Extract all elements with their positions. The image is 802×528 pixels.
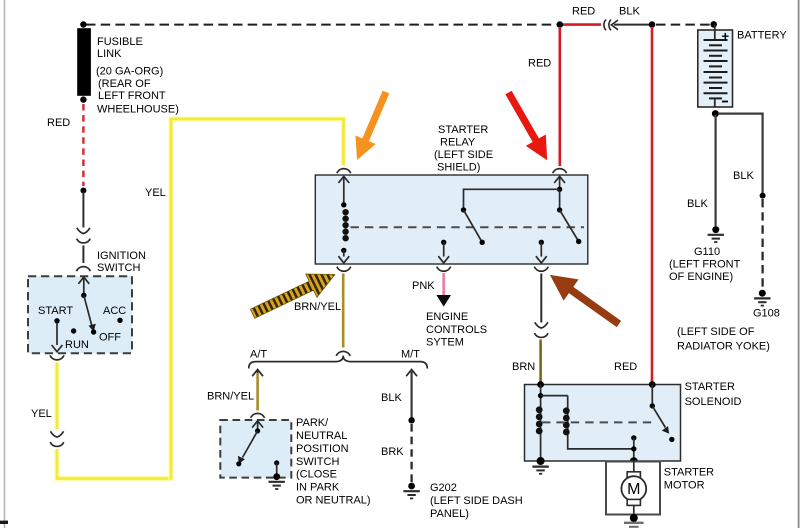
svg-text:(LEFT SIDE DASH: (LEFT SIDE DASH	[430, 495, 523, 507]
contact ACC	[117, 318, 122, 323]
svg-text:RELAY: RELAY	[440, 137, 476, 149]
solenoid switch contact	[651, 385, 653, 406]
svg-text:G202: G202	[430, 482, 457, 494]
solenoid internal dashed link	[542, 421, 656, 423]
fusible link (20 GA-ORG)	[77, 28, 91, 96]
svg-text:OF ENGINE): OF ENGINE)	[669, 271, 733, 283]
ignition switch terminal arrow	[78, 277, 89, 284]
park/neutral position switch box	[220, 420, 291, 478]
ground G108	[759, 290, 766, 297]
label: ignition switch	[97, 250, 146, 274]
svg-text:BATTERY: BATTERY	[737, 30, 787, 42]
wire: BRN/YEL from relay coil down	[342, 274, 345, 348]
solenoid ground node	[537, 457, 545, 465]
svg-text:SWITCH: SWITCH	[296, 456, 339, 468]
svg-text:LINK: LINK	[97, 48, 122, 60]
ground (solenoid case)	[532, 467, 548, 474]
contact RUN	[71, 328, 76, 333]
park/neutral switch blade	[243, 431, 258, 458]
relay coil terminal arrow (bottom left)	[343, 250, 345, 256]
wire: black from relay to in-line connector	[540, 274, 542, 323]
contact OFF	[91, 329, 96, 334]
starter relay box	[315, 175, 588, 264]
wire: YEL riser and top run to starter relay	[171, 119, 344, 480]
label: park/neutral position switch	[296, 417, 371, 507]
svg-text:POSITION: POSITION	[296, 443, 349, 455]
svg-text:RADIATOR YOKE): RADIATOR YOKE)	[677, 341, 770, 353]
svg-text:OR NEUTRAL): OR NEUTRAL)	[296, 495, 371, 507]
svg-text:RED: RED	[47, 117, 70, 129]
ground (park/neutral switch)	[269, 482, 285, 489]
relay coil terminal arrow (top left)	[338, 176, 349, 183]
label G110	[669, 246, 741, 283]
wire: RED dashed from fusible link to ignition feed	[82, 104, 85, 186]
svg-text:IN PARK: IN PARK	[296, 481, 340, 493]
wire: dashed bus segment to battery	[656, 24, 710, 26]
solenoid pull-in coil	[540, 385, 542, 462]
svg-text:SOLENOID: SOLENOID	[685, 396, 742, 408]
svg-text:MOTOR: MOTOR	[664, 480, 705, 492]
connector cup below relay coil	[337, 267, 351, 271]
wire: RED drop from bus to starter relay	[558, 27, 561, 166]
svg-text:LEFT FRONT: LEFT FRONT	[98, 90, 166, 102]
wire: coil link	[541, 395, 568, 397]
striped hazard callout arrow	[250, 274, 334, 318]
wire: motor to ground	[633, 505, 635, 517]
svg-text:IGNITION: IGNITION	[97, 250, 146, 262]
svg-text:RED: RED	[614, 361, 637, 373]
svg-text:STARTER: STARTER	[664, 466, 714, 478]
junction node: bus to solenoid drop	[649, 21, 656, 28]
svg-text:G110: G110	[694, 246, 720, 258]
svg-text:M: M	[627, 481, 640, 498]
wire: BLK battery negative to G110	[714, 115, 716, 226]
svg-text:BLK: BLK	[381, 392, 402, 404]
park/neutral switch pivot	[255, 428, 260, 433]
junction node at battery positive	[710, 21, 717, 28]
wire: RED jumper on top bus	[560, 23, 601, 26]
svg-text:WHEELHOUSE): WHEELHOUSE)	[97, 104, 179, 116]
svg-text:OFF: OFF	[99, 332, 121, 344]
wire: relay internal branch to center contact	[464, 189, 560, 209]
wire: RED drop from bus to starter solenoid	[651, 27, 654, 382]
svg-text:BRN/YEL: BRN/YEL	[207, 391, 254, 403]
label G202	[430, 482, 523, 520]
relay internal dashed link	[351, 226, 585, 228]
solenoid switch blade	[652, 406, 665, 428]
brown callout arrow	[550, 275, 621, 327]
svg-text:STARTER: STARTER	[685, 381, 735, 393]
park/neutral switch ground contact	[274, 460, 279, 465]
svg-text:FUSIBLE: FUSIBLE	[97, 36, 143, 48]
wire: BLK branch battery negative to G108	[718, 114, 763, 193]
splice brace A/T-M/T	[249, 356, 428, 369]
connector cup below relay solenoid output	[534, 267, 548, 271]
ground G202	[408, 483, 415, 490]
wire: top supply bus dashed (fusible link to battery)	[86, 24, 556, 26]
connector cup below ignition switch	[50, 355, 64, 359]
wire: START output arrow	[56, 323, 58, 345]
svg-text:BRK: BRK	[381, 446, 404, 458]
A/T branch terminal arrow	[252, 370, 263, 377]
svg-text:PNK: PNK	[412, 280, 435, 292]
svg-text:(LEFT SIDE OF: (LEFT SIDE OF	[677, 326, 755, 338]
svg-text:(CLOSE: (CLOSE	[296, 469, 337, 481]
ignition switch blade (to OFF)	[84, 295, 92, 326]
solenoid RED input node	[649, 381, 656, 388]
svg-text:ENGINE: ENGINE	[426, 311, 468, 323]
relay coil	[341, 202, 346, 207]
park/neutral switch terminal arrow	[252, 421, 263, 428]
label: engine controls system	[426, 311, 487, 349]
solenoid motor output node	[630, 457, 638, 465]
starter motor M	[621, 472, 646, 506]
svg-text:(REAR OF: (REAR OF	[98, 78, 151, 90]
svg-text:(20 GA-ORG): (20 GA-ORG)	[96, 66, 163, 78]
relay center contact	[461, 207, 466, 212]
svg-text:ACC: ACC	[103, 305, 126, 317]
wire: BRN to starter solenoid	[539, 340, 542, 383]
relay right contact	[557, 207, 562, 212]
connector cup at relay power input	[553, 169, 567, 173]
node below fusible link	[80, 96, 86, 102]
svg-text:BLK: BLK	[733, 170, 754, 182]
relay output terminal (to solenoid)	[539, 240, 544, 245]
wire: black into ignition switch	[82, 246, 84, 264]
svg-text:BRN/YEL: BRN/YEL	[294, 301, 341, 313]
contact START	[54, 318, 59, 323]
label G108	[677, 308, 780, 353]
engine controls system arrow	[436, 295, 451, 307]
svg-text:PANEL): PANEL)	[430, 508, 469, 520]
svg-text:CONTROLS: CONTROLS	[426, 324, 487, 336]
in-line connector on top bus	[604, 20, 618, 31]
in-line connector on solenoid control wire	[535, 322, 549, 337]
M/T branch terminal arrow	[406, 370, 417, 377]
svg-text:SYTEM: SYTEM	[426, 337, 464, 349]
junction node at battery negative	[712, 110, 719, 117]
connector cup at splice	[336, 351, 350, 355]
svg-text:RUN: RUN	[65, 339, 89, 351]
label: starter relay	[434, 124, 493, 174]
svg-text:BLK: BLK	[619, 6, 640, 18]
junction node on G108 leg	[760, 193, 766, 199]
wire: relay internal to right contact	[559, 189, 561, 209]
svg-text:RED: RED	[572, 6, 595, 18]
svg-text:SWITCH: SWITCH	[97, 262, 140, 274]
wire: YEL lower run to relay feed riser	[57, 449, 171, 479]
junction node at fusible link top	[80, 21, 86, 27]
svg-text:+: +	[722, 29, 730, 44]
wire: black bus segment	[614, 24, 649, 26]
red callout arrow	[505, 91, 547, 160]
solenoid BRN input node	[537, 381, 544, 388]
relay output terminal (PNK)	[441, 240, 446, 245]
solenoid hold-in coil	[568, 396, 634, 449]
ground G110	[712, 226, 719, 233]
label: starter motor	[664, 466, 714, 491]
wire: solenoid to motor	[633, 461, 635, 472]
wire: dashed BRK to G202	[410, 424, 412, 482]
junction node above ignition switch	[80, 188, 86, 194]
in-line connector on YEL wire	[50, 431, 64, 446]
label: fusible link	[96, 36, 179, 116]
svg-text:A/T: A/T	[250, 348, 267, 360]
orange callout arrow	[356, 91, 390, 160]
junction node on M/T branch	[408, 417, 414, 423]
svg-text:RED: RED	[528, 58, 551, 70]
svg-text:BRN: BRN	[512, 361, 535, 373]
starter motor housing	[606, 462, 660, 515]
solenoid motor output contact	[631, 435, 636, 440]
connector cup at park/neutral switch	[251, 413, 265, 417]
connector cup at relay coil input	[337, 169, 351, 173]
svg-text:(LEFT FRONT: (LEFT FRONT	[669, 259, 741, 271]
ignition switch box	[28, 276, 132, 353]
wire: PNK to engine controls	[442, 273, 445, 295]
wire: black to ignition switch connector	[82, 192, 84, 228]
relay power terminal arrow (top right)	[554, 176, 565, 183]
relay internal node	[557, 187, 562, 192]
svg-text:NEUTRAL: NEUTRAL	[296, 430, 347, 442]
label: starter solenoid	[685, 381, 742, 408]
junction node: bus to relay drop	[557, 21, 564, 28]
connector cup below relay PNK output	[437, 267, 451, 271]
battery	[698, 24, 733, 107]
in-line connector on ignition feed	[77, 228, 91, 243]
relay center switch blade	[464, 210, 483, 242]
svg-text:STARTER: STARTER	[438, 124, 488, 136]
wire: YEL from ignition START down	[55, 363, 60, 430]
svg-text:PARK/: PARK/	[296, 417, 329, 429]
ignition switch pivot	[81, 293, 86, 298]
connector cup at ignition switch case	[76, 267, 90, 271]
svg-text:SHIELD): SHIELD)	[437, 162, 480, 174]
relay right switch blade	[560, 210, 579, 242]
wire: BRN/YEL to park/neutral switch	[256, 373, 259, 411]
ground (starter motor)	[630, 514, 638, 522]
svg-text:(LEFT SIDE: (LEFT SIDE	[434, 149, 493, 161]
svg-text:M/T: M/T	[401, 348, 420, 360]
svg-text:YEL: YEL	[31, 408, 52, 420]
svg-text:G108: G108	[753, 308, 780, 320]
svg-text:START: START	[38, 305, 73, 317]
svg-text:BLK: BLK	[687, 198, 708, 210]
starter solenoid box	[525, 385, 681, 462]
svg-text:YEL: YEL	[145, 187, 166, 199]
wire: dashed BLK to G108	[761, 199, 763, 289]
